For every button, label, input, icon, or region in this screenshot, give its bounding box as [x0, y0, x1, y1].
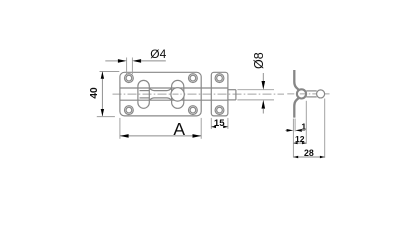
node: knob [171, 88, 184, 101]
wire: main horizontal centerline [113, 93, 285, 95]
svg-text:12: 12 [295, 134, 305, 144]
wire: dimension 12 extension line [305, 101, 307, 144]
wire: dimension 15 line with arrows [211, 126, 228, 129]
svg-text:1: 1 [301, 121, 306, 131]
wire: dimension 28 line with arrows [293, 156, 324, 158]
node: ball end of bolt [317, 90, 325, 98]
wire: dimension 12 line with arrows [293, 142, 306, 144]
node: right staple guide [172, 80, 184, 108]
node: keeper plate side profile lower strip [294, 98, 298, 117]
wire: dimension 40 extension lines [97, 72, 120, 117]
wire: dimension Ø4 extension lines [127, 58, 133, 75]
wire: dimension A line with arrows [120, 134, 201, 138]
node: keeper screw hole bottom [215, 106, 224, 115]
node: left staple guide [138, 80, 149, 108]
svg-text:A: A [173, 119, 185, 139]
wire: inner band between staples [140, 88, 172, 100]
node: keeper screw hole top [215, 74, 224, 83]
wire: dimension Ø8 line with arrows [262, 73, 266, 114]
wire: dimension 28 extension line [324, 99, 326, 158]
wire: dimension Ø8 extension lines [237, 90, 274, 100]
svg-text:40: 40 [89, 87, 100, 99]
wire: dimension 15 extension lines [211, 118, 228, 129]
svg-text:Ø8: Ø8 [252, 52, 266, 69]
node: keeper plate side profile upper strip [294, 70, 298, 90]
wire: dimension 40 line with arrows [101, 72, 104, 117]
wire: dimension Ø4 line with arrows [105, 59, 166, 63]
node: screw hole top-left [124, 74, 133, 83]
wire: bolt rod body [120, 88, 228, 100]
node: screw hole top-right [189, 74, 198, 83]
wire: dimension A extension lines [120, 118, 201, 139]
svg-text:Ø4: Ø4 [150, 47, 166, 61]
node: keeper plate [211, 72, 228, 116]
wire: bolt rod end piece [228, 90, 236, 100]
wire: dimension 1 line with arrows [285, 129, 305, 132]
node: keeper loop ring [297, 89, 306, 98]
svg-text:15: 15 [214, 118, 225, 129]
wire: centerline dash through knob [173, 93, 182, 95]
node: back plate of bolt [120, 72, 201, 116]
wire: side view centerline [287, 93, 329, 95]
svg-text:28: 28 [304, 148, 314, 158]
node: screw hole bottom-left [124, 106, 133, 115]
wire: bolt rod in side view [306, 91, 316, 97]
node: screw hole bottom-right [189, 106, 198, 115]
wire: dimension 1 extension lines [293, 119, 295, 158]
